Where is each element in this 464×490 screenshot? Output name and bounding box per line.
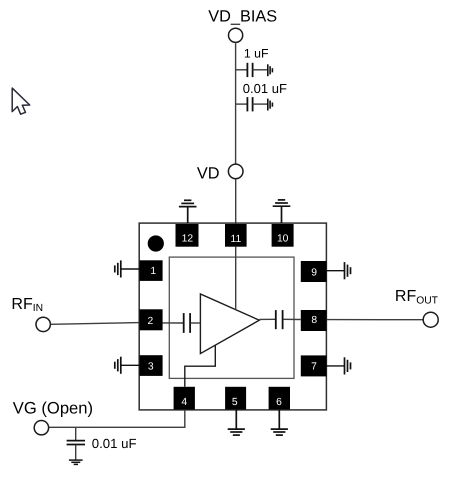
pad 12 <box>176 224 199 247</box>
pad 1 <box>140 260 163 281</box>
svg-text:0.01 uF: 0.01 uF <box>92 436 137 451</box>
pin 1 indicator dot <box>148 235 164 251</box>
svg-text:1: 1 <box>150 266 156 277</box>
input DC-block capacitor <box>184 313 190 333</box>
wire pad 9 to ground <box>327 270 345 272</box>
wire pad 1 to ground <box>121 268 139 270</box>
pad 6 <box>269 387 290 410</box>
svg-text:8: 8 <box>311 315 317 326</box>
svg-text:10: 10 <box>277 233 289 244</box>
svg-text:VD: VD <box>197 164 220 182</box>
output DC-block capacitor <box>276 310 283 329</box>
mouse cursor <box>12 88 30 114</box>
wire pin 11 into amplifier <box>235 247 237 310</box>
inner die rectangle <box>169 257 294 378</box>
terminal RF_OUT <box>423 312 438 327</box>
svg-text:12: 12 <box>182 233 194 244</box>
pad 10 <box>272 224 294 247</box>
svg-text:1 uF: 1 uF <box>244 47 269 61</box>
wire amplifier feedback to pin 4 <box>185 345 216 387</box>
capacitor C2 0.01 uF <box>247 97 252 111</box>
op-amp triangle <box>200 294 259 354</box>
wire C2 to ground <box>253 103 268 105</box>
ground below pad 6 <box>271 410 288 435</box>
pad 2 <box>140 309 163 330</box>
wire pin 8 to RF_OUT <box>327 319 424 321</box>
svg-text:0.01 uF: 0.01 uF <box>243 81 287 96</box>
ground below pad 5 <box>228 410 245 435</box>
wire pad 3 to ground <box>121 364 139 366</box>
wire pin 2 to input capacitor <box>163 322 184 324</box>
terminal VG <box>34 421 48 435</box>
pad 3 <box>140 355 163 376</box>
ground above pad 10 (inverted) <box>273 200 291 223</box>
pad 5 <box>225 387 246 410</box>
ground at pad 9 (pointing right) <box>345 262 351 279</box>
ground at pad 3 (pointing left) <box>115 357 121 374</box>
svg-text:9: 9 <box>311 267 317 278</box>
svg-text:RFOUT: RFOUT <box>395 288 439 306</box>
wire amplifier to output capacitor <box>259 318 275 320</box>
ground above pad 12 (inverted) <box>179 200 197 223</box>
svg-text:11: 11 <box>231 234 242 245</box>
svg-text:3: 3 <box>148 361 154 372</box>
terminal RF_IN <box>36 317 50 331</box>
pad 9 <box>301 261 327 282</box>
wire C3 to ground <box>75 445 77 460</box>
svg-text:4: 4 <box>181 397 187 408</box>
terminal VD_BIAS <box>229 28 243 42</box>
svg-text:2: 2 <box>148 316 154 327</box>
ground at pad 1 (pointing left) <box>115 260 121 277</box>
pad 7 <box>301 355 327 376</box>
svg-text:7: 7 <box>311 362 317 373</box>
wire input capacitor to amplifier <box>191 322 201 324</box>
capacitor C3 0.01 uF <box>67 441 85 445</box>
svg-text:RFIN: RFIN <box>11 296 43 314</box>
ground at pad 7 (pointing right) <box>345 357 351 374</box>
capacitor C1 1 uF <box>247 63 252 77</box>
ground at C2 (small, pointing right) <box>268 99 273 111</box>
wire to C1 <box>236 69 247 71</box>
wire C1 to ground <box>253 69 268 71</box>
pad 11 <box>225 224 247 247</box>
wire output capacitor to pin 8 <box>283 318 301 320</box>
svg-text:6: 6 <box>276 397 282 408</box>
terminal VD <box>228 164 243 179</box>
wire VD_BIAS to VD <box>235 43 237 165</box>
wire pin 4 to VG node <box>49 410 185 428</box>
capacitor C3 stem from VG wire <box>75 427 77 440</box>
svg-text:VD_BIAS: VD_BIAS <box>208 8 277 26</box>
pad 8 <box>301 310 327 331</box>
wire RF_IN to pin 2 <box>51 323 140 325</box>
pad 4 <box>174 387 195 410</box>
wire pad 7 to ground <box>327 365 345 367</box>
package outline U1 <box>139 223 326 410</box>
ground below C3 (small) <box>69 460 83 464</box>
wire to C2 <box>236 103 247 105</box>
ground at C1 (small, pointing right) <box>268 64 273 76</box>
svg-text:VG (Open): VG (Open) <box>13 399 93 418</box>
wire VD to pin 11 <box>235 179 237 225</box>
svg-text:5: 5 <box>232 397 238 408</box>
